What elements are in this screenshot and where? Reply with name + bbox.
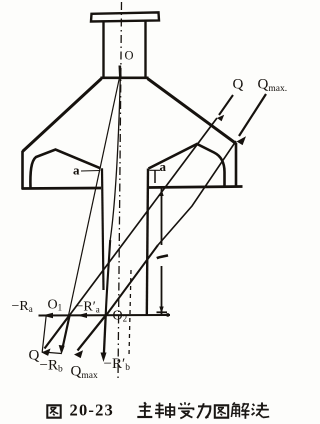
svg-text:20-23: 20-23 — [70, 401, 115, 420]
svg-text:O: O — [125, 49, 134, 63]
svg-text:Q: Q — [29, 348, 40, 364]
svg-text:Q: Q — [233, 77, 244, 93]
svg-text:a: a — [73, 163, 80, 178]
svg-text:a: a — [160, 159, 167, 174]
